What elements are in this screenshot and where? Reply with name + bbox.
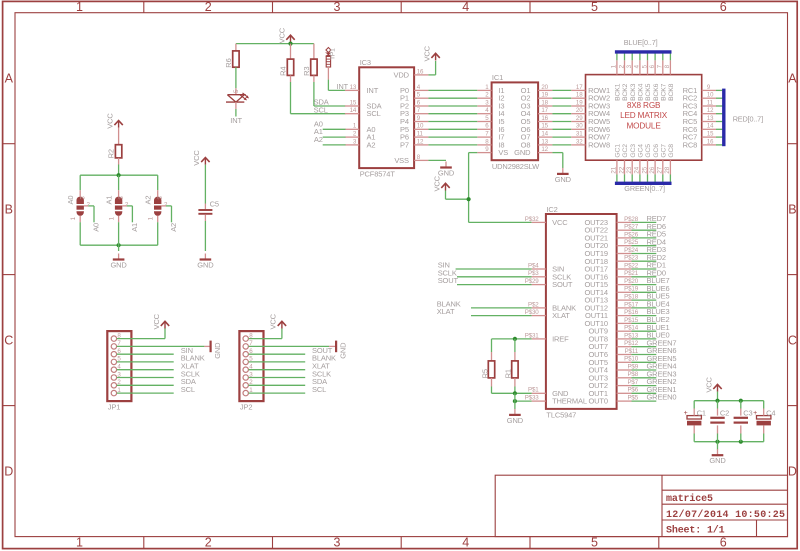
net label GREEN2: [647, 377, 677, 386]
svg-text:GC6: GC6: [653, 144, 660, 158]
svg-text:VCC: VCC: [269, 313, 278, 329]
wire JP1 pin4: [117, 369, 174, 371]
wire LED to net INT: [235, 102, 237, 116]
wire rail to A1 top: [118, 175, 120, 196]
wire IC1 O6 to ROW6: [552, 128, 571, 130]
IC3 pin A0 (1): [345, 123, 375, 134]
wire net SIN (IC2): [456, 268, 532, 270]
net label BLUE4: [647, 300, 670, 309]
wire JP2 pin6: [249, 353, 306, 355]
bus BLUE[0..7]: [615, 38, 672, 52]
wire net GREEN2: [632, 385, 657, 387]
svg-text:3: 3: [333, 0, 340, 14]
wire C5 to GND: [204, 215, 206, 251]
junction top rail: [117, 173, 121, 177]
svg-text:LED MATRIX: LED MATRIX: [620, 111, 668, 120]
svg-text:4: 4: [462, 536, 469, 550]
svg-text:P7: P7: [400, 140, 409, 149]
svg-text:17: 17: [576, 84, 583, 91]
net label A2 (IC3): [314, 135, 323, 144]
capacitor C3: [734, 409, 753, 423]
wire BCK7 to BLUE bus: [662, 52, 664, 60]
svg-text:RED[0..7]: RED[0..7]: [733, 114, 763, 123]
bus RED[0..7]: [724, 89, 763, 147]
net label SIN (IC2): [438, 261, 450, 270]
IC IC2 body TLC5947: [546, 205, 617, 420]
matrix pin GC1 (21): [611, 144, 622, 175]
svg-text:20: 20: [541, 84, 548, 91]
svg-text:GND: GND: [110, 261, 127, 270]
svg-text:5: 5: [591, 0, 598, 14]
IC3 pin VSS (8): [394, 154, 428, 165]
net label SDA (JP2): [312, 377, 327, 386]
wire R3 to SDA: [314, 75, 346, 106]
matrix pin RC2 (10): [683, 93, 716, 103]
wire net BLUE5: [632, 299, 657, 301]
IC2 pin OUT22 (P$27): [584, 224, 638, 235]
IC2 pin OUT15 (P$20): [584, 278, 638, 289]
svg-text:BCK4: BCK4: [638, 83, 645, 101]
IC2 pin OUT12 (P$17): [584, 301, 638, 312]
svg-text:SCL: SCL: [312, 385, 326, 394]
svg-text:VS: VS: [498, 148, 508, 157]
IC1 pin O6 (15): [521, 123, 553, 134]
ground GND (caps): [709, 449, 726, 465]
wire RC5 to RED bus: [716, 121, 722, 123]
wire rail to C3: [740, 401, 742, 416]
wire IC3 P0 to IC1 I1: [428, 89, 477, 91]
svg-text:19: 19: [576, 99, 583, 106]
svg-text:SOUT: SOUT: [552, 280, 573, 289]
IC3 pin P4 (9): [400, 115, 428, 126]
svg-text:XLAT: XLAT: [437, 307, 455, 316]
net stub A2 at IC3: [323, 144, 346, 146]
IC2 pin BLANK (P$2): [528, 301, 576, 312]
wire cap bottom rail: [694, 441, 764, 443]
IC1 pin I5 (5): [477, 115, 504, 126]
IC2 pin OUT8 (P$13): [588, 332, 638, 343]
ground GND (IC1): [555, 168, 572, 184]
net label XLAT (JP1): [181, 362, 199, 371]
svg-text:VCC: VCC: [552, 218, 568, 227]
svg-text:BCK3: BCK3: [630, 83, 637, 101]
wire JP2 pin2: [249, 384, 306, 386]
svg-text:UDN2982SLW: UDN2982SLW: [492, 162, 540, 171]
net label RED2: [647, 253, 666, 262]
svg-text:1: 1: [76, 0, 83, 14]
IC2 pin OUT0 (P$5): [588, 395, 638, 406]
wire R2 to jumper rail: [118, 158, 120, 175]
net label XLAT (JP2): [312, 362, 330, 371]
net label BLANK (JP2): [312, 354, 336, 363]
svg-text:11: 11: [707, 100, 714, 106]
svg-text:A2: A2: [144, 196, 153, 205]
IC2 pin OUT2 (P$7): [588, 379, 638, 390]
svg-text:12: 12: [707, 108, 714, 114]
net label BLUE5: [647, 292, 670, 301]
wire RC6 to RED bus: [716, 128, 722, 130]
wire IC3 P5 to IC1 I6: [428, 128, 477, 130]
IC2 pin OUT9 (P$14): [588, 325, 638, 336]
junction bottom rail: [117, 243, 121, 247]
net label SCL: [314, 105, 328, 114]
resistor R4: [279, 59, 294, 76]
IC2 pin OUT16 (P$21): [584, 270, 638, 281]
wire BCK8 to BLUE bus: [669, 52, 671, 60]
net label RED3: [647, 245, 666, 254]
wire JP2 pin8 to VCC: [249, 329, 282, 339]
svg-text:R6: R6: [224, 58, 233, 67]
svg-text:TP1: TP1: [329, 48, 336, 60]
matrix pin BCK3 (3): [626, 60, 637, 101]
svg-text:+: +: [684, 410, 688, 417]
svg-text:22: 22: [618, 166, 625, 173]
svg-text:D: D: [788, 465, 797, 479]
wire JP1 pin7 to GND: [117, 345, 211, 347]
IC2 pin SCLK (P$3): [528, 270, 571, 281]
IC1 pin I6 (6): [477, 123, 504, 134]
matrix pin ROW6 (30): [571, 123, 610, 134]
svg-text:R2: R2: [107, 149, 116, 158]
wire R6 to LED: [235, 67, 237, 95]
svg-text:14: 14: [541, 131, 548, 138]
net label BLUE6: [647, 284, 670, 293]
IC3 pin P5 (10): [400, 123, 428, 134]
wire RC2 to RED bus: [716, 97, 722, 99]
junction IREF/R1: [513, 337, 517, 341]
net label GREEN6: [647, 346, 677, 355]
matrix pin RC7 (15): [683, 132, 716, 142]
junction GND/R1: [513, 391, 517, 395]
matrix pin BCK4 (4): [634, 60, 645, 101]
wire IC1 O5 to ROW5: [552, 121, 571, 123]
junction THERMAL: [513, 399, 517, 403]
ground GND (jumpers): [110, 254, 127, 270]
svg-text:BCK6: BCK6: [653, 83, 660, 101]
wire IC3 P7 to IC1 I8: [428, 144, 477, 146]
IC1 pin O4 (17): [521, 107, 553, 118]
wire rail to R3: [313, 44, 315, 60]
matrix pin RC6 (14): [683, 124, 716, 134]
net label SCL (JP2): [312, 385, 326, 394]
svg-text:GND: GND: [339, 342, 348, 359]
wire BCK1 to BLUE bus: [616, 52, 618, 60]
IC2 pin OUT17 (P$22): [584, 262, 638, 273]
svg-text:GC7: GC7: [660, 144, 667, 158]
wire JP2 pin5: [249, 361, 306, 363]
wire RC4 to RED bus: [716, 113, 722, 115]
matrix pin RC1 (9): [683, 85, 716, 95]
net label A1: [130, 223, 139, 232]
solder jumper A0: [66, 196, 90, 221]
svg-text:2: 2: [205, 0, 212, 14]
svg-text:R5: R5: [480, 369, 489, 378]
svg-text:26: 26: [649, 166, 656, 173]
svg-text:8X8 RGB: 8X8 RGB: [627, 101, 661, 110]
wire A1 middle net stub: [122, 206, 132, 222]
svg-text:VCC: VCC: [192, 150, 201, 166]
wire C3 to rail: [740, 425, 742, 441]
svg-text:16: 16: [541, 115, 548, 122]
power VCC (IC2): [432, 175, 449, 191]
wire BCK4 to BLUE bus: [639, 52, 641, 60]
wire R5 branch bottom: [491, 378, 493, 393]
wire JP2 pin4: [249, 369, 306, 371]
wire IC1 VS to IC2 VCC: [469, 153, 532, 223]
net stub A1 at IC3: [323, 136, 346, 138]
svg-text:C3: C3: [743, 409, 752, 418]
svg-text:SCL: SCL: [314, 105, 328, 114]
wire net RED1: [632, 268, 657, 270]
resistor R6: [224, 51, 239, 68]
wire IC3 P1 to IC1 I2: [428, 97, 477, 99]
svg-text:2: 2: [205, 536, 212, 550]
solder jumper A2: [144, 196, 168, 221]
junction cap rail VCC: [715, 399, 719, 403]
wire net RED7: [632, 221, 657, 223]
net label A0 (IC3): [314, 119, 323, 128]
IC2 pin GND (P$1): [528, 387, 569, 398]
svg-text:A2: A2: [314, 135, 323, 144]
net label BLUE2: [647, 315, 670, 324]
wire net BLUE4: [632, 307, 657, 309]
svg-text:A2: A2: [169, 223, 178, 232]
svg-text:18: 18: [576, 92, 583, 99]
wire GC3 to GREEN bus: [631, 175, 633, 184]
svg-text:13: 13: [707, 116, 714, 122]
wire VCC to R2: [118, 128, 120, 145]
matrix pin BCK2 (2): [618, 60, 629, 101]
wire IC1 GND to ground: [552, 153, 562, 168]
wire RC7 to RED bus: [716, 136, 722, 138]
wire TP1 to INT: [328, 67, 345, 90]
matrix pin GC3 (23): [626, 144, 637, 175]
svg-text:P$32: P$32: [525, 216, 540, 223]
power VCC (R2 pull-up): [105, 113, 122, 129]
power VCC (C5): [192, 150, 209, 166]
IC2 pin OUT5 (P$10): [588, 356, 638, 367]
IC2 pin OUT7 (P$12): [588, 340, 638, 351]
matrix pin GC7 (27): [657, 144, 668, 175]
wire VCC to VS net: [446, 191, 469, 200]
net label INT (IC3): [337, 82, 349, 91]
wire cap top rail: [694, 400, 764, 402]
ground GND (C5): [197, 254, 214, 270]
svg-text:GREEN0: GREEN0: [647, 393, 677, 402]
matrix pin ROW3 (19): [571, 99, 610, 110]
wire rail to R4: [290, 44, 292, 60]
wire A2 bottom to rail: [157, 216, 159, 245]
matrix pin ROW8 (32): [571, 138, 610, 149]
svg-text:VCC: VCC: [422, 45, 431, 61]
IC1 pin O5 (16): [521, 115, 553, 126]
wire RC3 to RED bus: [716, 105, 722, 107]
svg-text:TLC5947: TLC5947: [546, 411, 576, 420]
svg-text:25: 25: [641, 166, 648, 173]
net stub A0 at IC3: [323, 128, 346, 130]
capacitor C1: [684, 409, 706, 426]
net label A1 (IC3): [314, 127, 323, 136]
power VCC (JP1): [152, 313, 169, 329]
IC3 pin P3 (7): [400, 107, 428, 118]
wire net GREEN7: [632, 346, 657, 348]
IC2 pin VCC (P$32): [525, 216, 568, 227]
wire net XLAT (IC2): [471, 315, 532, 317]
resistor R3: [302, 59, 317, 76]
wire JP2 pin7 to GND: [249, 345, 337, 347]
svg-text:R1: R1: [504, 369, 513, 378]
wire net GREEN6: [632, 354, 657, 356]
svg-text:29: 29: [576, 115, 583, 122]
wire BCK6 to BLUE bus: [654, 52, 656, 60]
wire GND rail: [492, 392, 532, 394]
power VCC (cap bank): [704, 376, 721, 392]
wire RC8 to RED bus: [716, 144, 722, 146]
junction cap bottom C3: [739, 440, 743, 444]
svg-text:R3: R3: [302, 67, 311, 76]
net label BLUE0: [647, 331, 670, 340]
wire GC2 to GREEN bus: [624, 175, 626, 184]
IC1 pin O3 (18): [521, 99, 553, 110]
IC2 pin OUT19 (P$24): [584, 247, 638, 258]
svg-text:32: 32: [576, 138, 583, 145]
wire net BLUE3: [632, 315, 657, 317]
svg-text:5: 5: [591, 536, 598, 550]
net label RED6: [647, 222, 666, 231]
svg-text:VCC: VCC: [704, 376, 713, 392]
wire GC1 to GREEN bus: [616, 175, 618, 184]
svg-text:15: 15: [707, 132, 714, 138]
svg-text:XLAT: XLAT: [552, 311, 570, 320]
wire IREF rail: [492, 338, 532, 340]
svg-text:GC3: GC3: [630, 144, 637, 158]
resistor R5: [480, 361, 494, 379]
svg-text:GND: GND: [514, 148, 531, 157]
wire net RED4: [632, 245, 657, 247]
svg-text:16: 16: [707, 139, 714, 145]
capacitor C4: [753, 409, 775, 426]
svg-text:6: 6: [720, 536, 727, 550]
matrix pin BCK7 (7): [657, 60, 668, 101]
connector JP1: [107, 331, 131, 411]
net label BLANK (IC2): [437, 300, 461, 309]
svg-text:VCC: VCC: [152, 313, 161, 329]
net label SCL (JP1): [181, 385, 195, 394]
net label BLANK (JP1): [181, 354, 205, 363]
svg-text:24: 24: [634, 166, 641, 173]
matrix pin BCK8 (8): [664, 60, 675, 101]
wire GC5 to GREEN bus: [647, 175, 649, 184]
svg-text:3: 3: [333, 536, 340, 550]
svg-text:14: 14: [350, 107, 357, 114]
ground GND (IC3): [438, 162, 455, 178]
svg-text:15: 15: [541, 123, 548, 130]
wire JP2 pin1: [249, 392, 306, 394]
wire net GREEN4: [632, 369, 657, 371]
wire net RED0: [632, 276, 657, 278]
svg-text:C4: C4: [766, 409, 775, 418]
wire JP1 pin5: [117, 361, 174, 363]
ground GND (JP2): [336, 341, 348, 359]
svg-text:10: 10: [707, 93, 714, 99]
IC2 pin OUT20 (P$25): [584, 239, 638, 250]
wire GC7 to GREEN bus: [662, 175, 664, 184]
wire A0 middle net stub: [84, 206, 94, 222]
wire C2 to rail: [717, 425, 719, 441]
svg-text:GC5: GC5: [645, 144, 652, 158]
wire JP1 pin3: [117, 377, 174, 379]
wire net SOUT (IC2): [457, 284, 532, 286]
wire net BLUE2: [632, 322, 657, 324]
power VCC (JP2): [269, 313, 286, 329]
svg-text:A0: A0: [66, 196, 75, 205]
svg-text:GND: GND: [197, 261, 214, 270]
svg-text:28: 28: [664, 166, 671, 173]
svg-text:1: 1: [76, 536, 83, 550]
wire net SCLK (IC2): [457, 276, 532, 278]
wire net GREEN1: [632, 392, 657, 394]
testpoint TP1: [326, 48, 337, 68]
svg-text:C1: C1: [697, 409, 706, 418]
wire net RED6: [632, 229, 657, 231]
wire GC6 to GREEN bus: [654, 175, 656, 184]
net label SOUT (JP2): [312, 346, 333, 355]
net label GREEN3: [647, 369, 677, 378]
net label SDA (JP1): [181, 377, 196, 386]
wire JP1 pin2: [117, 384, 174, 386]
wire net RED3: [632, 253, 657, 255]
title block: [495, 475, 787, 536]
IC1 pin O2 (19): [521, 92, 553, 103]
svg-text:INT: INT: [230, 116, 242, 125]
wire net BLANK (IC2): [471, 307, 532, 309]
svg-text:21: 21: [611, 166, 618, 173]
svg-text:C: C: [788, 334, 797, 348]
IC1 pin O1 (20): [521, 84, 553, 95]
svg-text:BCK8: BCK8: [668, 83, 675, 101]
svg-text:GC2: GC2: [622, 144, 629, 158]
wire jumper bottom rail: [80, 244, 158, 246]
IC1 pin I7 (7): [477, 131, 504, 142]
IC U1 IC3 body PCF8574T: [359, 58, 414, 179]
wire net GREEN3: [632, 377, 657, 379]
capacitor C2: [710, 409, 729, 423]
wire rail to C4: [763, 401, 765, 416]
IC2 pin OUT4 (P$9): [588, 363, 638, 374]
IC IC1 body UDN2982SLW: [492, 73, 541, 171]
IC3 pin P6 (11): [400, 131, 428, 142]
IC2 pin XLAT (P$30): [525, 309, 571, 320]
wire rail to GND (caps): [717, 442, 719, 450]
svg-text:6: 6: [720, 0, 727, 14]
wire VCC to cap rail: [717, 392, 719, 401]
IC3 pin A1 (2): [345, 131, 375, 142]
wire IC3 P4 to IC1 I5: [428, 121, 477, 123]
svg-text:BCK2: BCK2: [622, 83, 629, 101]
svg-text:IREF: IREF: [552, 334, 569, 343]
matrix pin GC4 (24): [634, 144, 645, 175]
wire net RED5: [632, 237, 657, 239]
svg-text:GND: GND: [709, 456, 726, 465]
wire VCC to C5: [204, 165, 206, 210]
svg-text:JP1: JP1: [108, 402, 120, 411]
svg-text:Sheet: 1/1: Sheet: 1/1: [666, 525, 725, 537]
net label BLUE7: [647, 276, 670, 285]
svg-text:A1: A1: [130, 223, 139, 232]
svg-text:A0: A0: [92, 223, 101, 232]
wire rail to A0 top: [79, 175, 81, 196]
net label BLUE3: [647, 307, 670, 316]
